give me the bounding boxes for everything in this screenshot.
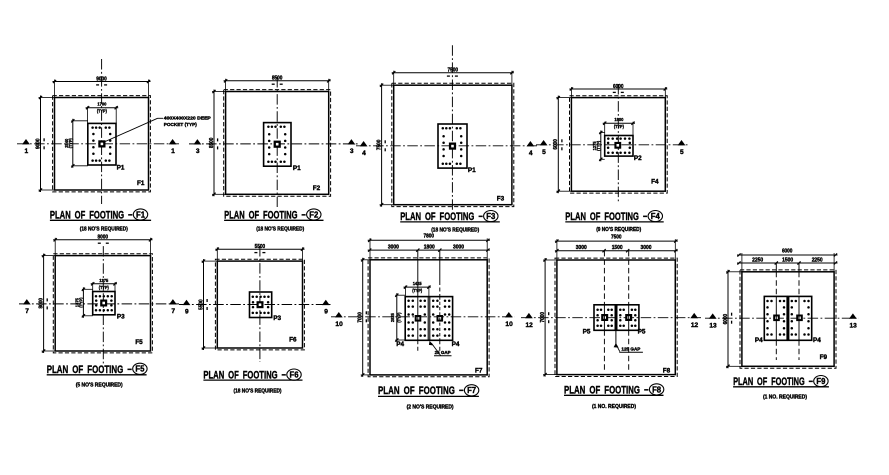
svg-text:(TYP): (TYP)	[396, 312, 401, 322]
svg-text:9: 9	[185, 309, 189, 316]
svg-text:P1: P1	[117, 165, 125, 172]
svg-text:5: 5	[680, 149, 684, 156]
svg-text:1: 1	[24, 148, 28, 155]
svg-text:P5: P5	[638, 329, 646, 336]
svg-text:5500: 5500	[198, 299, 204, 310]
svg-text:4: 4	[529, 150, 533, 157]
svg-text:(18 NO'S REQUIRED): (18 NO'S REQUIRED)	[256, 226, 304, 232]
svg-text:(2 NO'S REQUIRED): (2 NO'S REQUIRED)	[407, 404, 454, 410]
svg-text:(9 NO'S REQUIRED): (9 NO'S REQUIRED)	[596, 227, 641, 233]
svg-text:6000: 6000	[613, 84, 624, 90]
svg-text:P2: P2	[634, 155, 642, 162]
svg-text:F5: F5	[135, 339, 143, 346]
svg-text:F3: F3	[486, 212, 496, 221]
svg-text:2250: 2250	[752, 257, 763, 263]
svg-text:8000: 8000	[39, 298, 45, 309]
svg-text:(5 NO'S REQUIRED): (5 NO'S REQUIRED)	[76, 383, 123, 389]
svg-text:F9: F9	[820, 354, 828, 361]
svg-text:6000: 6000	[553, 139, 559, 150]
svg-text:7000: 7000	[540, 312, 546, 323]
svg-text:13: 13	[850, 322, 858, 329]
svg-text:3000: 3000	[576, 245, 587, 251]
svg-text:(TYP): (TYP)	[99, 285, 109, 290]
svg-text:PLAN OF FOOTING −: PLAN OF FOOTING −	[47, 364, 132, 376]
svg-text:P1: P1	[293, 165, 301, 172]
svg-text:F6: F6	[290, 371, 300, 380]
svg-text:(18 NO'S REQUIRED): (18 NO'S REQUIRED)	[431, 227, 479, 233]
svg-text:(TYP): (TYP)	[79, 297, 84, 307]
svg-text:(18 NO'S REQUIRED): (18 NO'S REQUIRED)	[234, 388, 282, 394]
svg-text:1500: 1500	[782, 257, 793, 263]
svg-text:6000: 6000	[782, 248, 793, 254]
svg-text:400X400X220 DEEP: 400X400X220 DEEP	[164, 116, 211, 121]
svg-text:F8: F8	[663, 368, 671, 375]
svg-text:P4: P4	[396, 341, 404, 348]
svg-text:PLAN OF FOOTING −: PLAN OF FOOTING −	[50, 209, 133, 221]
svg-text:F6: F6	[289, 337, 297, 344]
svg-text:7000: 7000	[358, 312, 364, 323]
svg-text:7500: 7500	[611, 234, 622, 240]
svg-text:3000: 3000	[388, 244, 399, 250]
svg-text:10: 10	[505, 321, 513, 328]
svg-text:POCKET (TYP): POCKET (TYP)	[164, 122, 198, 127]
svg-text:1700: 1700	[97, 102, 107, 107]
svg-text:PLAN OF FOOTING −: PLAN OF FOOTING −	[378, 385, 464, 397]
svg-text:2250: 2250	[812, 257, 823, 263]
svg-text:(1 NO. REQUIRED): (1 NO. REQUIRED)	[592, 404, 636, 410]
svg-text:8000: 8000	[98, 235, 109, 241]
svg-text:12: 12	[526, 322, 534, 329]
svg-text:5500: 5500	[255, 244, 266, 250]
svg-text:4: 4	[362, 150, 366, 157]
svg-text:(TYP): (TYP)	[97, 109, 107, 114]
svg-text:9: 9	[324, 309, 328, 316]
svg-text:F5: F5	[135, 365, 145, 374]
svg-text:P4: P4	[755, 337, 763, 344]
svg-text:(TYP): (TYP)	[596, 140, 601, 150]
svg-text:F4: F4	[651, 178, 659, 185]
svg-text:(TYP): (TYP)	[68, 138, 73, 148]
svg-text:F7: F7	[467, 386, 477, 395]
svg-text:F1: F1	[136, 210, 146, 219]
svg-text:1800: 1800	[614, 117, 624, 122]
svg-text:7800: 7800	[424, 234, 435, 240]
svg-text:3: 3	[196, 148, 200, 155]
svg-text:F9: F9	[816, 377, 826, 386]
svg-text:5: 5	[542, 149, 546, 156]
svg-text:PLAN OF FOOTING −: PLAN OF FOOTING −	[224, 209, 306, 221]
svg-text:(18 NO'S REQUIRED): (18 NO'S REQUIRED)	[80, 226, 128, 232]
svg-text:1800: 1800	[424, 244, 435, 250]
svg-text:1: 1	[171, 148, 175, 155]
svg-text:1375: 1375	[99, 278, 109, 283]
svg-text:1500: 1500	[612, 245, 623, 251]
svg-text:F8: F8	[652, 385, 662, 394]
svg-text:9000: 9000	[35, 139, 41, 150]
svg-text:8500: 8500	[209, 138, 215, 149]
svg-text:10: 10	[335, 321, 343, 328]
svg-text:F4: F4	[651, 212, 661, 221]
svg-text:7500: 7500	[377, 140, 383, 151]
svg-text:P5: P5	[583, 329, 591, 336]
svg-text:P4: P4	[452, 341, 460, 348]
svg-text:125 GAP: 125 GAP	[621, 346, 640, 351]
svg-text:F1: F1	[137, 180, 145, 187]
svg-text:F3: F3	[497, 196, 505, 203]
svg-text:3000: 3000	[641, 245, 652, 251]
svg-text:P3: P3	[117, 314, 125, 321]
svg-text:(1 NO. REQUIRED): (1 NO. REQUIRED)	[763, 395, 807, 401]
svg-text:PLAN OF FOOTING −: PLAN OF FOOTING −	[565, 211, 647, 223]
svg-text:12: 12	[691, 322, 699, 329]
svg-text:3: 3	[350, 148, 354, 155]
svg-text:F7: F7	[475, 367, 483, 374]
svg-text:(TYP): (TYP)	[614, 124, 624, 129]
svg-text:25 GAP: 25 GAP	[435, 350, 451, 355]
svg-text:3000: 3000	[453, 244, 464, 250]
svg-text:6000: 6000	[723, 314, 729, 325]
svg-text:PLAN OF FOOTING −: PLAN OF FOOTING −	[564, 384, 649, 396]
svg-text:P1: P1	[468, 167, 476, 174]
svg-text:8500: 8500	[272, 76, 283, 82]
svg-text:7: 7	[171, 308, 175, 315]
svg-text:PLAN OF FOOTING −: PLAN OF FOOTING −	[400, 211, 483, 223]
svg-text:7: 7	[25, 308, 29, 315]
svg-text:7500: 7500	[448, 68, 459, 74]
svg-text:F2: F2	[313, 185, 321, 192]
svg-text:2825: 2825	[390, 313, 395, 323]
svg-text:P4: P4	[813, 337, 821, 344]
svg-text:P3: P3	[273, 315, 281, 322]
svg-text:9000: 9000	[96, 76, 107, 82]
svg-text:13: 13	[709, 322, 717, 329]
svg-text:F2: F2	[309, 210, 319, 219]
